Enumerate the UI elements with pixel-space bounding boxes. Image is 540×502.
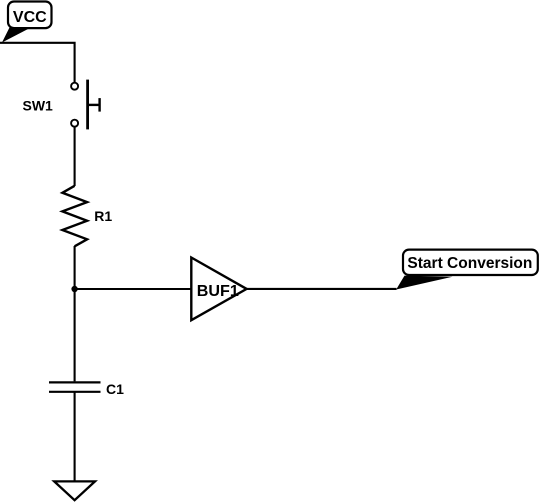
buffer BUF1 xyxy=(191,258,246,321)
svg-text:Start Conversion: Start Conversion xyxy=(407,255,532,272)
wire node to buffer xyxy=(75,288,192,290)
svg-text:BUF1: BUF1 xyxy=(197,283,239,300)
wire resistor to node xyxy=(74,246,76,290)
wire VCC to switch xyxy=(0,43,75,83)
svg-text:C1: C1 xyxy=(106,381,124,397)
svg-text:SW1: SW1 xyxy=(23,98,54,114)
wire switch to resistor xyxy=(74,127,76,186)
svg-text:R1: R1 xyxy=(94,208,112,224)
switch SW1 xyxy=(23,80,100,130)
wire buffer output xyxy=(247,288,397,290)
net tag VCC xyxy=(2,2,52,43)
node junction dot xyxy=(71,286,77,292)
net tag Start Conversion xyxy=(396,250,538,290)
ground xyxy=(54,481,95,500)
capacitor C1 xyxy=(49,381,124,397)
wire capacitor to ground xyxy=(74,392,76,481)
resistor R1 xyxy=(62,186,112,247)
svg-text:VCC: VCC xyxy=(13,9,47,26)
wire node to capacitor xyxy=(74,289,76,381)
